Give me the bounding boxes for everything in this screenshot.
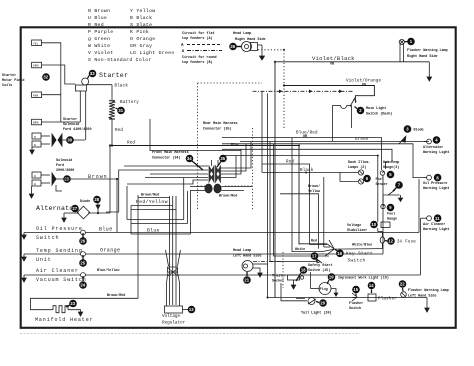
wire brown/yellow — [280, 177, 330, 249]
legend color code — [88, 8, 175, 63]
bottom bus — [268, 298, 430, 313]
node 16 — [335, 250, 373, 264]
svg-text:28: 28 — [94, 197, 99, 202]
svg-text:Circuit for flat: Circuit for flat — [182, 31, 215, 36]
node 18 — [296, 266, 307, 281]
svg-text:S Non-Standard Color: S Non-Standard Color — [88, 57, 152, 63]
node 4 — [423, 136, 449, 155]
oil pressure warning light (8) — [424, 175, 431, 180]
svg-text:12: 12 — [388, 239, 393, 244]
svg-text:Oil Pressure: Oil Pressure — [423, 181, 447, 186]
svg-text:Blue: Blue — [99, 227, 113, 233]
starter motor field coils (32) — [2, 40, 80, 125]
node 9 — [387, 204, 397, 222]
node 14 — [368, 282, 376, 293]
node 8 — [423, 174, 449, 191]
svg-text:Voltage: Voltage — [162, 314, 180, 319]
svg-text:Blue/Yellow: Blue/Yellow — [97, 268, 120, 273]
svg-text:Main Light: Main Light — [366, 106, 386, 111]
svg-text:B Black: B Black — [130, 15, 152, 21]
svg-text:Black: Black — [115, 84, 129, 89]
node 35 — [217, 155, 227, 167]
svg-text:Fuel: Fuel — [387, 212, 395, 217]
starter (33) — [75, 78, 112, 140]
svg-text:Blue: Blue — [147, 228, 160, 234]
node 28 — [93, 196, 101, 204]
svg-text:2000/3000: 2000/3000 — [56, 168, 74, 173]
svg-text:32: 32 — [43, 75, 48, 80]
svg-text:Solenoid: Solenoid — [63, 122, 79, 127]
node 32 — [42, 73, 50, 81]
node 1 — [405, 38, 415, 46]
svg-text:Plug: Plug — [320, 287, 328, 292]
front main harness connector (34) — [152, 150, 252, 199]
svg-text:3A Fuse: 3A Fuse — [397, 241, 416, 245]
svg-text:BRN: BRN — [33, 122, 39, 125]
svg-text:UR: UR — [303, 135, 308, 139]
svg-text:S Slate: S Slate — [130, 22, 152, 28]
svg-text:Connector (35): Connector (35) — [203, 127, 232, 132]
svg-text:Blue: Blue — [231, 143, 239, 148]
svg-text:23: 23 — [70, 301, 75, 306]
water temp gauge (5) — [380, 171, 384, 175]
svg-text:B: B — [182, 50, 184, 54]
starter solenoid ford 4100/4600 (30) — [30, 117, 92, 154]
node 17 — [308, 252, 332, 273]
battery (31) — [109, 84, 139, 146]
svg-text:Voltage: Voltage — [347, 223, 361, 228]
svg-text:Switch: Switch — [36, 235, 59, 241]
node 12 — [385, 237, 416, 245]
svg-text:11: 11 — [435, 216, 440, 221]
svg-text:W: W — [34, 175, 36, 178]
svg-text:Starter: Starter — [2, 73, 16, 78]
svg-text:10: 10 — [371, 222, 376, 227]
svg-text:Unit: Unit — [36, 257, 52, 263]
node 30 — [66, 136, 74, 144]
node 10 — [347, 221, 378, 233]
flasher (14) — [368, 294, 397, 302]
svg-text:Red: Red — [311, 239, 317, 244]
svg-text:K Pink: K Pink — [130, 29, 149, 35]
svg-text:Temp Sending: Temp Sending — [36, 248, 83, 254]
implement work light (19) — [311, 272, 338, 296]
svg-text:Ford: Ford — [56, 163, 64, 168]
flasher switch (15) — [352, 293, 357, 301]
node 19 — [327, 273, 389, 284]
svg-text:White: White — [295, 247, 305, 252]
svg-text:LG Light Green: LG Light Green — [130, 50, 175, 56]
svg-text:Red: Red — [127, 141, 135, 146]
wire dash-dot circuit B — [198, 83, 355, 210]
svg-text:YEL: YEL — [33, 42, 39, 45]
svg-text:34: 34 — [187, 156, 192, 161]
alternator warning light (4) — [424, 139, 431, 144]
oil pressure switch — [22, 179, 419, 241]
svg-text:Battery: Battery — [120, 101, 139, 105]
svg-text:W: W — [34, 183, 36, 186]
svg-text:W: W — [34, 144, 36, 147]
node 23 — [66, 300, 77, 308]
svg-text:Switch (15): Switch (15) — [308, 268, 330, 273]
svg-text:Violet/Black: Violet/Black — [312, 55, 355, 62]
svg-text:Flasher Warning Lamp: Flasher Warning Lamp — [407, 48, 448, 53]
svg-text:18: 18 — [301, 268, 306, 273]
svg-text:Coils: Coils — [2, 83, 12, 88]
svg-text:24: 24 — [80, 283, 85, 288]
svg-text:Flasher: Flasher — [378, 297, 397, 302]
svg-text:VB: VB — [330, 63, 334, 67]
svg-text:Diode: Diode — [80, 199, 90, 204]
svg-text:Vacuum Switch: Vacuum Switch — [36, 277, 87, 283]
svg-text:Dash Illum.: Dash Illum. — [348, 160, 370, 165]
manifold heater (23) — [31, 195, 139, 323]
fuel sender (7) — [383, 190, 403, 202]
svg-text:Fuel: Fuel — [376, 177, 384, 182]
svg-text:Warning Light: Warning Light — [423, 150, 449, 155]
svg-text:27: 27 — [72, 206, 77, 211]
svg-text:PNK: PNK — [33, 94, 39, 97]
node 7 — [376, 177, 403, 191]
svg-text:Yellow: Yellow — [308, 189, 321, 194]
svg-text:35: 35 — [220, 156, 225, 161]
svg-text:Starter: Starter — [63, 117, 77, 122]
wire brown — [62, 174, 117, 232]
svg-text:Flasher: Flasher — [349, 301, 363, 306]
svg-text:Trailer: Trailer — [272, 274, 286, 279]
wire black (lamp feed) — [300, 168, 314, 173]
svg-text:Head Lamp: Head Lamp — [233, 31, 251, 36]
svg-text:Circuit for round: Circuit for round — [182, 55, 217, 60]
wires into connector left — [106, 119, 241, 212]
node 21 — [243, 272, 251, 284]
svg-text:Sender: Sender — [376, 182, 388, 187]
svg-text:Motor Field: Motor Field — [2, 78, 24, 83]
svg-text:Air Cleaner: Air Cleaner — [423, 222, 445, 227]
legend circuit fender note — [181, 31, 217, 65]
svg-text:W White: W White — [88, 43, 110, 49]
svg-text:W: W — [34, 136, 36, 139]
node 15 — [349, 286, 363, 311]
voltage regulator (13) — [162, 196, 188, 326]
node 26 — [229, 43, 241, 51]
svg-text:14: 14 — [369, 283, 374, 288]
svg-text:White/Blue: White/Blue — [352, 243, 372, 248]
svg-text:P Purple: P Purple — [88, 29, 113, 35]
main light switch (2) — [332, 97, 356, 142]
svg-text:GR Gray: GR Gray — [130, 43, 152, 49]
svg-text:Switch: Switch — [349, 306, 361, 311]
svg-text:Tail Light (20): Tail Light (20) — [301, 311, 332, 316]
svg-text:Orange: Orange — [100, 248, 120, 254]
head lamp RH (26) — [233, 31, 266, 60]
node 24 — [79, 276, 87, 289]
svg-text:Flasher Warning Lamp: Flasher Warning Lamp — [408, 288, 449, 293]
center vertical bundle — [262, 91, 329, 297]
svg-text:Gauge: Gauge — [387, 218, 397, 222]
node 22 — [399, 280, 407, 291]
svg-text:top fenders (B): top fenders (B) — [182, 60, 213, 65]
svg-text:Socket: Socket — [272, 279, 284, 284]
svg-text:Gauge(3): Gauge(3) — [383, 165, 399, 170]
node 11 — [423, 214, 449, 232]
solenoid ford 2000/3000 (29) — [29, 158, 74, 198]
key start switch (16) — [295, 239, 382, 257]
svg-text:V Violet: V Violet — [88, 50, 113, 56]
wires regulator feeds — [127, 178, 190, 234]
border frame — [21, 27, 456, 328]
air cleaner warning light (11) — [421, 216, 432, 221]
svg-text:Alternator: Alternator — [423, 145, 443, 150]
temp sending unit (25) — [22, 196, 383, 263]
svg-text:Warning Light: Warning Light — [423, 186, 449, 191]
svg-text:13: 13 — [189, 307, 194, 312]
svg-text:25: 25 — [80, 261, 85, 266]
node 27 — [71, 205, 79, 213]
fuel gauge (9) — [381, 175, 385, 209]
svg-text:Left Hand Side: Left Hand Side — [233, 254, 262, 259]
svg-text:Ford 4100/4600: Ford 4100/4600 — [63, 127, 92, 132]
center bus wires — [222, 131, 429, 223]
svg-text:Brown/Red: Brown/Red — [107, 293, 125, 298]
svg-text:Air Cleaner: Air Cleaner — [36, 268, 79, 274]
head lamp LH (21) — [233, 248, 283, 277]
node 13 — [188, 306, 196, 314]
svg-text:31: 31 — [118, 108, 123, 113]
svg-text:Starter: Starter — [99, 72, 128, 79]
ground alternator — [62, 213, 79, 222]
svg-text:Right Hand Side: Right Hand Side — [235, 37, 266, 42]
node 25 — [79, 255, 87, 267]
svg-text:Red: Red — [115, 128, 123, 133]
svg-text:Red/Yellow: Red/Yellow — [136, 199, 168, 205]
svg-text:21: 21 — [244, 278, 249, 283]
svg-text:Oil Pressure: Oil Pressure — [36, 226, 83, 232]
svg-text:Solenoid: Solenoid — [56, 158, 72, 163]
svg-text:Right Hand Side: Right Hand Side — [407, 54, 438, 59]
svg-text:Diode: Diode — [414, 128, 424, 133]
node 34 — [186, 155, 203, 170]
svg-text:Switch: Switch — [348, 258, 366, 264]
node 3 — [404, 125, 424, 133]
svg-text:Lamps (2): Lamps (2) — [348, 165, 366, 170]
svg-text:U Blue: U Blue — [88, 15, 107, 21]
svg-text:16: 16 — [337, 251, 342, 256]
node 20 — [316, 299, 327, 307]
svg-text:O Orange: O Orange — [130, 36, 155, 42]
svg-text:Brown/Red: Brown/Red — [141, 193, 159, 198]
svg-text:33: 33 — [90, 71, 95, 76]
svg-text:15: 15 — [353, 287, 358, 292]
svg-text:20: 20 — [320, 301, 325, 306]
svg-text:22: 22 — [400, 282, 405, 287]
svg-text:Implement Work Light (19): Implement Work Light (19) — [338, 276, 389, 281]
svg-text:Left Hand Side: Left Hand Side — [408, 294, 437, 299]
diode D28 — [80, 199, 100, 213]
node 2 — [355, 106, 393, 117]
svg-text:A: A — [181, 44, 184, 48]
flasher warning lamp RH (1) — [399, 39, 448, 81]
wire violet/orange — [258, 49, 382, 130]
harness connector bowties lower — [168, 268, 178, 276]
dash illumination lamps (6) — [262, 160, 370, 184]
svg-text:Switch (Dash): Switch (Dash) — [366, 112, 392, 117]
wire red feed — [112, 146, 299, 245]
voltage stabilizer (10) — [381, 222, 390, 228]
svg-text:Connector (34): Connector (34) — [152, 156, 181, 161]
svg-text:GRN: GRN — [33, 65, 39, 68]
svg-text:Brown/: Brown/ — [308, 184, 320, 189]
node 6 — [363, 175, 371, 183]
svg-text:Manifold Heater: Manifold Heater — [35, 317, 94, 323]
svg-text:26: 26 — [80, 239, 85, 244]
svg-text:30: 30 — [67, 138, 72, 143]
air cleaner vacuum switch (24) — [22, 218, 421, 283]
svg-text:Head Lamp: Head Lamp — [233, 248, 251, 253]
fuse 3A (12) — [378, 228, 385, 249]
svg-text:top fenders (A): top fenders (A) — [182, 36, 213, 41]
svg-text:R Red: R Red — [88, 22, 104, 28]
wire violet/black — [275, 55, 429, 298]
safety start switch (17) — [316, 259, 322, 264]
wires into connector right — [221, 142, 251, 178]
svg-text:Brown/Red: Brown/Red — [219, 194, 237, 199]
svg-text:Key Start: Key Start — [346, 251, 373, 257]
wire red (dash feed) — [262, 160, 327, 245]
flasher warning lamp LH (22) — [401, 288, 449, 299]
node 5 — [383, 161, 399, 178]
node 31 — [116, 107, 125, 115]
trailer socket (18) — [272, 274, 304, 290]
svg-text:17: 17 — [312, 254, 317, 259]
svg-text:26: 26 — [230, 44, 235, 49]
alternator (27) — [36, 146, 110, 219]
tail light (20) — [281, 283, 332, 316]
svg-text:Safety Start: Safety Start — [308, 263, 332, 268]
svg-text:Y Yellow: Y Yellow — [130, 8, 155, 14]
svg-text:19: 19 — [329, 275, 334, 280]
node 26 (oil pressure) — [79, 233, 87, 245]
svg-text:g Green: g Green — [88, 36, 110, 42]
svg-text:Regulator: Regulator — [162, 321, 186, 326]
node 33 — [88, 70, 129, 79]
svg-text:Warning Light: Warning Light — [423, 227, 449, 232]
rear main harness connector (35) — [203, 121, 238, 182]
diode (3) — [399, 136, 406, 144]
svg-text:Rear Main Harness: Rear Main Harness — [203, 121, 238, 126]
node 29 — [63, 175, 71, 183]
svg-text:Wat Temp: Wat Temp — [383, 161, 399, 165]
svg-text:N Brown: N Brown — [88, 8, 110, 14]
